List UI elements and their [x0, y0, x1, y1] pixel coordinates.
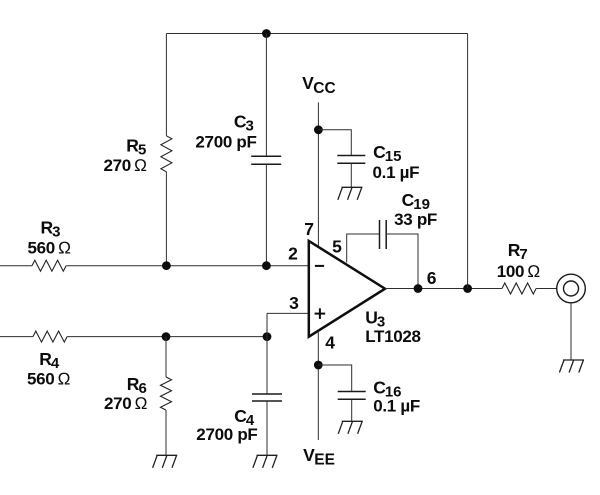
node junction top rail / C3 [262, 29, 271, 38]
value 2700 pF (C3) [195, 133, 256, 152]
label VEE [303, 445, 335, 469]
node junction R3 line / C3 [262, 261, 271, 270]
svg-text:270 Ω: 270 Ω [104, 394, 147, 413]
node junction R3 line / R5 [162, 261, 171, 270]
svg-text:4: 4 [325, 333, 335, 353]
svg-text:100 Ω: 100 Ω [497, 262, 540, 281]
pin 6 [427, 268, 437, 288]
wire top feedback rail [166, 33, 467, 35]
value 2700 pF (C4) [196, 425, 257, 444]
wire C4 lower (C4 to ground) [266, 401, 268, 455]
wire R6 lower (R6 to ground) [165, 410, 167, 455]
ground (below connector) [559, 360, 584, 373]
resistor R5 [161, 136, 172, 172]
wire input line to pin 2 (left segment) [0, 265, 32, 267]
resistor R3 [32, 260, 66, 271]
resistor R4 [33, 331, 67, 342]
value 560 ohm (R4) [27, 370, 70, 389]
svg-text:560 Ω: 560 Ω [28, 238, 71, 257]
pin 3 [289, 293, 299, 313]
pin 2 [288, 244, 298, 264]
label C3 [234, 111, 254, 134]
svg-text:0.1 µF: 0.1 µF [373, 397, 420, 416]
node junction R4 line / R6 [162, 332, 171, 341]
wire VCC to pin 7 [317, 102, 319, 247]
label R5 [126, 135, 146, 158]
pin 7 [304, 219, 314, 239]
wire connector to ground [570, 303, 572, 360]
label C15 [373, 142, 401, 165]
op-amp plus sign [315, 308, 326, 319]
node junction output / feedback [463, 284, 472, 293]
svg-text:270 Ω: 270 Ω [104, 156, 147, 175]
wire R6 upper (node to R6) [165, 337, 167, 377]
resistor R6 [161, 377, 172, 410]
value 0.1 uF (C16) [373, 397, 420, 416]
label VCC [302, 73, 336, 97]
wire left branch upper (rail to R5) [165, 34, 167, 136]
ground (below C4) [253, 455, 278, 468]
wire C3 upper (rail to C3) [265, 34, 267, 157]
svg-text:2700 pF: 2700 pF [195, 133, 256, 152]
connector output jack [557, 274, 586, 303]
value 560 ohm (R3) [28, 238, 71, 257]
label R3 [41, 218, 61, 241]
node junction VCC / C15 [314, 125, 323, 134]
svg-text:3: 3 [289, 293, 299, 313]
svg-text:33 pF: 33 pF [394, 210, 437, 229]
label R4 [39, 349, 60, 372]
pin 4 [325, 333, 335, 353]
label R6 [127, 374, 147, 397]
ground (below R6) [153, 455, 178, 468]
value 100 ohm (R7) [497, 262, 540, 281]
svg-text:5: 5 [332, 236, 342, 256]
value 0.1 uF (C15) [373, 163, 420, 182]
ground (below C16) [338, 421, 363, 434]
node junction VEE / C16 [314, 361, 323, 370]
svg-text:2: 2 [288, 244, 298, 264]
svg-text:0.1 µF: 0.1 µF [373, 163, 420, 182]
wire VEE junction to C16 [318, 365, 351, 392]
label U3 [365, 308, 385, 331]
svg-text:560 Ω: 560 Ω [27, 370, 70, 389]
wire pin 3 horizontal [267, 312, 309, 314]
wire C16 to ground [351, 399, 353, 421]
op-amp minus sign [315, 265, 324, 267]
capacitor C19 [380, 220, 387, 249]
svg-text:6: 6 [427, 268, 437, 288]
capacitor C4 [252, 394, 282, 401]
label C4 [234, 406, 255, 429]
wire left branch lower (R5 to node) [165, 172, 167, 266]
node junction output / C19 [414, 284, 423, 293]
svg-text:7: 7 [304, 219, 314, 239]
wire input line to R4 (left segment) [0, 336, 33, 338]
wire R3 to op-amp inverting input [66, 265, 309, 267]
node junction R4 line / C4 / pin 3 [263, 332, 272, 341]
wire feedback vertical [467, 34, 469, 289]
ground (below C15) [338, 187, 363, 200]
label C19 [402, 190, 430, 213]
wire R4 to node [67, 336, 267, 338]
capacitor C15 [337, 156, 365, 164]
capacitor C3 [251, 156, 281, 164]
label R7 [508, 240, 528, 263]
value 33 pF (C19) [394, 210, 437, 229]
capacitor C16 [338, 392, 366, 400]
value 270 ohm (R5) [104, 156, 147, 175]
svg-text:LT1028: LT1028 [365, 327, 421, 346]
wire pin 3 vertical (pin3 line to C4) [266, 313, 268, 394]
wire pin 4 to VEE [317, 331, 319, 440]
label C16 [373, 378, 401, 401]
wire C15 to ground [350, 163, 352, 187]
value 270 ohm (R6) [104, 394, 147, 413]
wire VCC junction to C15 [318, 130, 351, 156]
wire R7 to connector [536, 288, 557, 290]
wire C19 to output node [386, 234, 418, 289]
label LT1028 [365, 327, 421, 346]
pin 5 [332, 236, 342, 256]
wire pin 5 stub [347, 234, 380, 263]
wire output (op-amp tip to R7) [385, 288, 502, 290]
wire C3 lower (C3 to node) [265, 164, 267, 265]
op-amp U3 triangle [309, 241, 385, 337]
resistor R7 [502, 283, 536, 294]
svg-text:2700 pF: 2700 pF [196, 425, 257, 444]
